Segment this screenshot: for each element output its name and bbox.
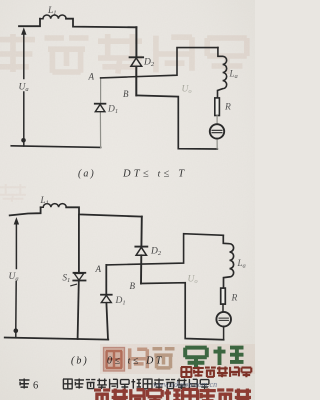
watermark green chars Di Tuo <box>130 348 148 369</box>
wire node A to load top (a) <box>101 48 218 78</box>
watermark wash bottom <box>100 344 255 374</box>
watermark slogan red chars <box>94 390 110 400</box>
watermark fragment left margin <box>0 184 26 202</box>
watermark row top <box>0 34 35 72</box>
wire R to motor (a) <box>216 116 218 149</box>
wire bottom-left rail (a) <box>11 146 100 148</box>
wire top rail through D2 to node B (b) <box>140 217 143 284</box>
junction dot (b) source bottom <box>14 328 19 333</box>
figure caption Fig6 chars <box>19 379 30 389</box>
wire top rail (a) <box>19 19 136 28</box>
resistor R (a) <box>215 98 220 116</box>
resistor R (b) <box>221 288 226 304</box>
diode D1 (a) <box>95 103 106 105</box>
wire top corner through D2 to node B (a) <box>135 27 137 95</box>
svg-text:0≤ t≤ DT: 0≤ t≤ DT <box>107 356 164 367</box>
circuit (a) <box>11 6 237 149</box>
wire node B to load bottom (b) <box>141 283 224 340</box>
wire node A to D1 to rail (a) <box>99 78 101 147</box>
voltage arrow Ua (a) <box>23 34 25 146</box>
svg-text:6: 6 <box>33 381 38 392</box>
svg-text:(b): (b) <box>71 356 89 367</box>
watermark EEWorld red chars <box>181 367 192 377</box>
inductor L1 (b) humps <box>41 204 67 208</box>
switch S1 (b) <box>74 272 86 274</box>
svg-text:DT≤ t≤ T: DT≤ t≤ T <box>122 169 187 180</box>
svg-text:R: R <box>224 103 231 113</box>
wire top rail (b) <box>10 207 142 216</box>
wire bottom-left rail (b) <box>5 338 109 340</box>
diode D2 (a) <box>130 56 144 58</box>
circuit (b) <box>5 195 246 340</box>
inductor La (a) <box>218 48 227 98</box>
svg-text:A: A <box>95 264 102 274</box>
inductor La (b) <box>223 235 233 288</box>
motor EMF circle (a) <box>210 124 224 138</box>
wire R to motor (b) <box>222 304 225 340</box>
junction dot (a) source bottom <box>21 138 26 143</box>
diode D2 (b) <box>135 246 147 248</box>
wire node A to load top (b) <box>106 234 223 265</box>
motor EMF circle (b) <box>216 312 231 327</box>
watermark green chars Pei Xun <box>185 348 207 367</box>
voltage arrow Ua (b) <box>15 224 18 328</box>
watermark YiDiTuo logo red box char <box>104 348 125 372</box>
inductor L1 (a) humps <box>40 15 66 19</box>
wire node A to D1 to rail (b) <box>106 265 108 340</box>
diode D1 (b) <box>101 294 112 296</box>
svg-text:B: B <box>123 89 129 99</box>
svg-text:www.edatop.com.cn: www.edatop.com.cn <box>153 380 217 389</box>
wire node B to load bottom (a) <box>136 95 217 149</box>
svg-text:A: A <box>88 72 95 82</box>
wire top rail to S1 (b) <box>78 215 79 339</box>
svg-text:B: B <box>130 281 136 291</box>
svg-text:(a): (a) <box>78 169 96 180</box>
svg-text:R: R <box>231 294 238 304</box>
